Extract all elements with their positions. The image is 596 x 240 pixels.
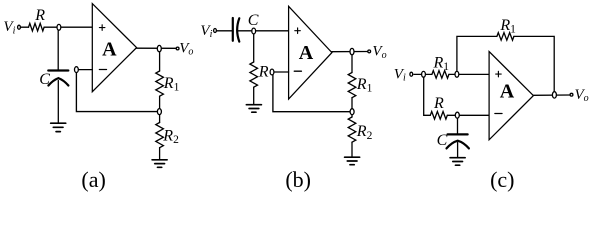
wire R1 to op-amp + input (c) (449, 73, 489, 75)
feedback wire + node up to top R1 (c) (457, 36, 497, 72)
wire junction to R2 (a) (159, 114, 161, 122)
op-amp + sign (a) (99, 25, 105, 31)
node - input (b) (270, 69, 274, 75)
wire - input circle to op-amp (b) (274, 71, 289, 73)
svg-text:R: R (258, 63, 269, 80)
node output (b) (350, 48, 354, 54)
wire input node to op-amp + input (b) (255, 30, 289, 32)
svg-text:C: C (39, 71, 50, 88)
capacitor C top plate (c) (448, 133, 468, 135)
wire R2 to ground (b) (351, 142, 353, 156)
wire R2 to ground (a) (159, 148, 161, 159)
wire - input circle to op-amp (a) (78, 69, 92, 71)
svg-text:C: C (437, 132, 448, 149)
node - input (a) (75, 67, 79, 73)
wire Vi junction down to resistor R (c) (424, 76, 431, 115)
svg-text:(c): (c) (490, 167, 514, 192)
node input junction (b) (252, 28, 256, 34)
resistor R1 (b) (348, 73, 356, 98)
svg-text:Vi: Vi (3, 19, 15, 36)
feedback wire - input down and right to R1/R2 junction (b) (273, 74, 350, 112)
svg-text:Vo: Vo (575, 87, 589, 104)
svg-text:(a): (a) (81, 167, 105, 192)
wire input node down to capacitor C (a) (57, 29, 59, 70)
wire R to ground (b) (253, 87, 255, 104)
wire junction to R2 (b) (351, 115, 353, 118)
node R1/R2 junction (a) (157, 109, 161, 115)
wire capacitor to input node (b) (238, 30, 251, 32)
wire output node down to R1 (a) (159, 51, 161, 71)
node - input (c) (455, 112, 459, 118)
svg-text:R1: R1 (433, 54, 450, 73)
capacitor C curved plate (c) (447, 141, 469, 149)
resistor R2 (a) (156, 123, 164, 148)
node output (a) (157, 45, 161, 51)
svg-text:Vo: Vo (372, 44, 386, 61)
wire input node down to resistor R (b) (253, 33, 255, 62)
ground under R2 (a) (152, 160, 167, 168)
node R1/R2 junction (b) (350, 109, 354, 115)
resistor R (a) (29, 23, 45, 31)
op-amp U2 triangle (b) (289, 6, 332, 99)
svg-text:Vi: Vi (200, 23, 212, 40)
svg-text:R: R (34, 7, 45, 24)
ground under R (b) (246, 105, 261, 113)
node Vi input terminal (a) (18, 25, 21, 29)
capacitor C flat plate (b) (232, 18, 234, 41)
node Vi input terminal (b) (214, 29, 217, 33)
svg-text:A: A (500, 81, 515, 103)
feedback wire - input down and right to R1/R2 junction (a) (76, 72, 156, 112)
svg-text:(b): (b) (285, 167, 311, 192)
resistor R2 (b) (348, 117, 356, 142)
wire R1 to junction (b) (351, 98, 353, 109)
svg-text:R1: R1 (499, 17, 516, 36)
op-amp - sign (a) (99, 69, 106, 71)
capacitor C top plate (a) (48, 69, 68, 71)
capacitor C curved plate (b) (237, 18, 239, 41)
ground under C (a) (51, 123, 66, 131)
resistor R (c) (430, 112, 447, 120)
node Vi input terminal (c) (410, 72, 413, 76)
resistor R (b) (250, 62, 258, 87)
svg-text:C: C (248, 12, 259, 29)
svg-text:R1: R1 (163, 75, 180, 94)
op-amp U3 triangle (c) (489, 52, 533, 140)
wire Vi terminal to capacitor C (b) (217, 30, 233, 32)
resistor R1 input (c) (432, 71, 449, 79)
resistor R1 (a) (156, 71, 164, 96)
node Vo terminal (c) (570, 93, 573, 96)
svg-text:R2: R2 (356, 123, 373, 142)
ground under R2 (b) (345, 157, 360, 165)
node Vi junction (c) (422, 71, 426, 77)
wire capacitor to ground (c) (457, 143, 459, 157)
svg-text:Vi: Vi (394, 66, 406, 83)
op-amp + sign (c) (496, 71, 502, 77)
wire Vi terminal to junction (c) (414, 73, 422, 75)
node output (c) (552, 92, 556, 98)
op-amp + sign (b) (295, 28, 301, 34)
wire Vi terminal to resistor R (a) (21, 26, 29, 28)
node Vo terminal (b) (368, 50, 371, 53)
output wire op-amp to Vo terminal (a) (137, 47, 176, 49)
node Vo terminal (a) (176, 47, 179, 50)
svg-text:A: A (102, 39, 117, 61)
node input junction (a) (57, 24, 61, 30)
node + input (c) (455, 71, 459, 77)
wire output node down to R1 (b) (351, 54, 353, 73)
wire R1 to junction (a) (159, 96, 161, 109)
feedback wire top R1 down to output node (c) (514, 36, 554, 92)
wire junction to resistor R1 (c) (426, 73, 432, 75)
op-amp - sign (b) (294, 70, 301, 72)
svg-text:A: A (299, 42, 314, 64)
wire - node down to capacitor C (c) (457, 118, 459, 133)
svg-text:Vo: Vo (179, 40, 193, 57)
svg-text:R: R (433, 95, 444, 112)
svg-text:R1: R1 (356, 76, 373, 95)
wire R to op-amp - input (c) (447, 114, 489, 116)
svg-text:R2: R2 (162, 127, 179, 146)
op-amp U1 triangle (a) (92, 4, 136, 92)
capacitor C curved plate (a) (48, 78, 68, 85)
output wire op-amp to Vo terminal (b) (332, 51, 368, 53)
op-amp - sign (c) (495, 113, 502, 115)
resistor R1 feedback (c) (497, 33, 514, 41)
wire R to op-amp + input (a) (44, 26, 92, 28)
output wire op-amp to Vo terminal (c) (533, 94, 569, 96)
wire capacitor to ground (a) (57, 81, 59, 123)
ground under C (c) (450, 158, 465, 166)
